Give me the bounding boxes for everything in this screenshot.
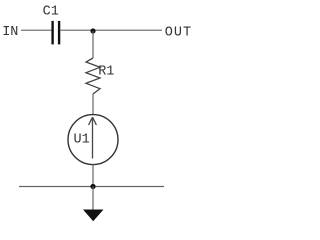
svg-text:R1: R1 [98,64,114,79]
current source U1 circle [68,115,118,165]
junction dot top node [90,28,95,33]
wire IN to C1 [21,29,51,31]
svg-text:OUT: OUT [165,26,192,41]
resistor R1 [86,58,100,94]
ground rail wire [19,186,164,188]
ground symbol [83,210,104,222]
capacitor C1 [53,21,60,45]
junction dot ground node [90,184,95,189]
wire C1 to OUT [60,29,162,31]
svg-text:IN: IN [2,25,18,40]
svg-text:U1: U1 [74,132,90,147]
wire node to R1 [92,31,94,58]
wire U1 to ground rail [92,165,94,187]
current source U1 arrow [89,117,97,158]
svg-text:C1: C1 [43,4,59,19]
wire R1 to U1 [92,94,94,115]
wire node to ground symbol [92,187,94,210]
